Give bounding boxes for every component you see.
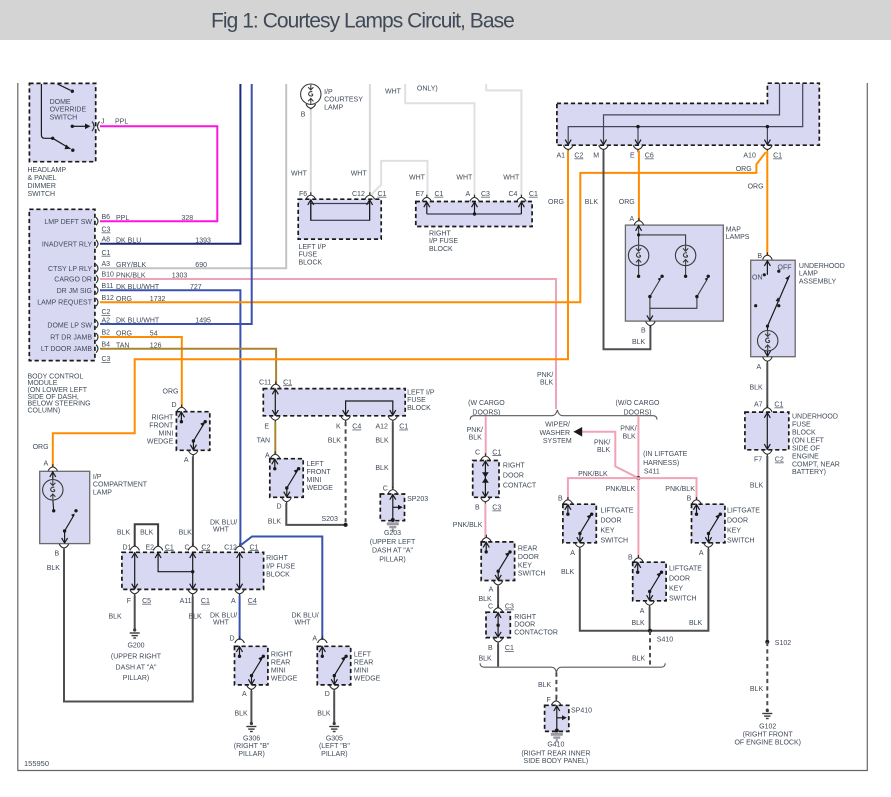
wire BLK dashed (brace to SP410 F) (555, 673, 557, 701)
contactor S8: right door contactor (486, 604, 514, 653)
svg-text:GRY/BLK: GRY/BLK (116, 262, 147, 269)
label right door contact (503, 463, 537, 490)
svg-text:INADVERT RLY: INADVERT RLY (42, 241, 93, 248)
svg-text:BLK: BLK (117, 530, 131, 537)
svg-text:ORG: ORG (619, 199, 635, 206)
svg-text:A: A (242, 691, 247, 698)
svg-text:RIGHT: RIGHT (514, 614, 537, 621)
svg-text:BLK: BLK (689, 620, 703, 627)
svg-text:SIDE OF: SIDE OF (792, 445, 820, 452)
svg-text:DOME: DOME (50, 99, 71, 106)
svg-text:SIDE BODY PANEL): SIDE BODY PANEL) (524, 758, 589, 765)
svg-text:BLOCK: BLOCK (792, 429, 816, 436)
wire DK BLU/WHT 1495 (A2, off page top) (100, 84, 252, 324)
wire DK BLU/WHT 727 (B11 down to C12 of right I/P fuse block) (100, 290, 240, 546)
svg-text:A11: A11 (180, 598, 192, 605)
svg-text:BLK: BLK (479, 596, 493, 603)
svg-text:PNK/BLK: PNK/BLK (453, 522, 483, 529)
svg-text:DK BLU/: DK BLU/ (210, 520, 237, 527)
svg-text:F7: F7 (754, 457, 762, 464)
lamp assembly E2: map lamps (625, 216, 723, 335)
svg-text:54: 54 (150, 331, 158, 338)
svg-text:RIGHT: RIGHT (429, 231, 452, 238)
svg-text:B: B (55, 551, 60, 558)
svg-text:COLUMN): COLUMN) (28, 407, 61, 414)
wire BLK dashed (S410 to collector brace) (649, 631, 651, 667)
fuse block F5: right I/P fuse block (122, 543, 264, 596)
svg-text:REAR: REAR (271, 660, 290, 667)
wire PNK/BLK (S411 right to right liftgate key switch B) (638, 478, 696, 499)
svg-text:D1: D1 (123, 544, 132, 551)
svg-text:C3: C3 (505, 604, 514, 611)
svg-text:BLK: BLK (268, 519, 282, 526)
wire BLK (left front wedge D to S203) (286, 503, 345, 525)
svg-text:PNK/BLK: PNK/BLK (606, 486, 636, 493)
svg-text:B: B (301, 111, 306, 118)
fuse block F3: underhood fuse block (745, 402, 789, 464)
svg-text:BLOCK: BLOCK (266, 572, 290, 579)
svg-text:DR JM SIG: DR JM SIG (57, 288, 92, 295)
wire ORG (A1 down, to I/P compartment lamp) (53, 151, 568, 467)
svg-text:DASH AT "A": DASH AT "A" (372, 548, 413, 555)
wire BLK (M down to map lamps B) (604, 151, 651, 350)
svg-text:A: A (699, 550, 704, 557)
svg-text:B: B (641, 328, 646, 335)
svg-text:LAMP REQUEST: LAMP REQUEST (37, 300, 92, 307)
svg-text:LMP DEFT SW: LMP DEFT SW (44, 219, 92, 226)
svg-text:A10: A10 (743, 153, 756, 160)
svg-text:PILLAR): PILLAR) (123, 675, 149, 682)
ground G410 (551, 733, 563, 742)
svg-text:B2: B2 (102, 330, 111, 337)
svg-text:E2: E2 (146, 544, 155, 551)
svg-text:ORG: ORG (736, 166, 752, 173)
svg-text:(LEFT "B": (LEFT "B" (319, 743, 350, 750)
svg-text:PNK/: PNK/ (537, 372, 553, 379)
svg-text:1732: 1732 (150, 296, 166, 303)
svg-text:C: C (185, 544, 190, 551)
svg-text:A: A (630, 216, 635, 223)
svg-text:ORG: ORG (33, 444, 49, 451)
label left I/P fuse block (299, 244, 327, 266)
svg-text:RIGHT: RIGHT (266, 555, 289, 562)
wire WHT (C12 vertical, off page top) (369, 84, 371, 195)
svg-text:MINI: MINI (307, 477, 322, 484)
jumper BLK (D1 to E2 loop) (135, 524, 158, 546)
wire TAN 126 (B4 to C11 of left I/P fuse block) (100, 349, 276, 385)
svg-text:BLK: BLK (479, 656, 493, 663)
svg-text:BLK: BLK (375, 438, 389, 445)
svg-text:BLK: BLK (623, 433, 637, 440)
label (W CARGO DOORS) (468, 400, 505, 417)
wire BLK (right front wedge A to C pin) (192, 457, 194, 546)
svg-text:C: C (475, 449, 480, 456)
svg-text:REAR: REAR (354, 660, 373, 667)
svg-text:PNK/BLK: PNK/BLK (578, 471, 608, 478)
svg-text:DOOR: DOOR (518, 554, 539, 561)
svg-text:DK BLU/: DK BLU/ (292, 612, 319, 619)
svg-text:K: K (336, 424, 341, 431)
wire GRY/BLK 690 (A3, off page top) (100, 84, 286, 268)
wire DK BLU/WHT (A to right rear wedge D) (239, 596, 241, 641)
svg-text:G102: G102 (759, 724, 776, 731)
svg-text:D: D (172, 402, 177, 409)
fuse block F4: left I/P fuse block (259, 379, 405, 423)
switch S10: right liftgate door key switch (687, 496, 725, 558)
wire (in block) feed to M (604, 83, 780, 145)
svg-text:FRONT: FRONT (149, 423, 174, 430)
svg-text:RIGHT: RIGHT (271, 652, 294, 659)
svg-text:SWITCH: SWITCH (727, 538, 755, 545)
svg-text:G305: G305 (326, 735, 343, 742)
svg-text:PNK/: PNK/ (467, 427, 483, 434)
svg-text:A1: A1 (557, 153, 566, 160)
svg-text:I/P FUSE: I/P FUSE (429, 238, 458, 245)
wire PNK/BLK (S411 left to left liftgate key switch B) (568, 478, 639, 499)
svg-text:WEDGE: WEDGE (271, 676, 298, 683)
svg-text:C1: C1 (102, 250, 111, 257)
svg-text:C1: C1 (283, 379, 292, 386)
svg-text:C1: C1 (505, 645, 514, 652)
svg-text:328: 328 (182, 215, 194, 222)
svg-text:OVERRIDE: OVERRIDE (50, 107, 87, 114)
svg-text:I/P: I/P (93, 474, 102, 481)
svg-text:S203: S203 (322, 516, 338, 523)
svg-text:PNK/BLK: PNK/BLK (665, 486, 695, 493)
wire ORG (A10 down to underhood lamp B) (766, 151, 768, 256)
svg-text:(RIGHT FRONT: (RIGHT FRONT (743, 731, 794, 738)
svg-text:ORG: ORG (548, 199, 564, 206)
svg-text:TAN: TAN (257, 438, 270, 445)
svg-text:C2: C2 (775, 457, 784, 464)
svg-text:S410: S410 (657, 637, 673, 644)
switch S11: middle liftgate door key switch (628, 555, 666, 615)
svg-text:A: A (640, 608, 645, 615)
svg-text:(RIGHT "B": (RIGHT "B" (234, 743, 270, 750)
svg-text:BLK: BLK (235, 711, 249, 718)
svg-text:E: E (630, 153, 635, 160)
svg-text:BLK: BLK (585, 199, 599, 206)
wire PNK/BLK (S411 to wiper/washer system) (580, 432, 638, 478)
label right front mini wedge (147, 415, 174, 446)
lamp E1: I/P courtesy lamp (301, 84, 364, 118)
wire BLK (F to G200) (134, 596, 136, 630)
switch S2: right front mini wedge (172, 402, 210, 464)
svg-text:REAR: REAR (518, 546, 537, 553)
svg-text:C3: C3 (492, 505, 501, 512)
svg-text:BLK: BLK (632, 656, 646, 663)
svg-text:DK BLU/WHT: DK BLU/WHT (116, 318, 160, 325)
svg-text:C1: C1 (201, 598, 210, 605)
svg-text:BLK: BLK (750, 483, 764, 490)
svg-text:OF ENGINE BLOCK): OF ENGINE BLOCK) (734, 739, 801, 746)
svg-text:CONTACT: CONTACT (503, 483, 537, 490)
svg-text:1303: 1303 (172, 273, 188, 280)
svg-text:LEFT I/P: LEFT I/P (407, 389, 435, 396)
label body control module location (28, 373, 91, 414)
svg-text:(W CARGO: (W CARGO (468, 400, 505, 407)
svg-text:F: F (547, 697, 551, 704)
svg-text:LAMP: LAMP (93, 489, 112, 496)
ground G305 (329, 722, 339, 732)
wire BLK (rear key A to contactor C) (497, 586, 499, 607)
wire WHT (off page top to pin A) (405, 84, 474, 198)
wire WHT (C4 to off page top) (486, 84, 521, 198)
svg-text:RIGHT: RIGHT (152, 415, 175, 422)
svg-text:BATTERY): BATTERY) (792, 469, 826, 476)
wire (in block) feed to A1 / E / A10 (568, 83, 803, 145)
lamp assembly E3: underhood lamp (751, 252, 796, 371)
label underhood lamp assembly (799, 263, 845, 285)
svg-text:B: B (687, 496, 692, 503)
wire BLK (right liftgate A to S410) (650, 549, 708, 631)
svg-text:PNK/: PNK/ (594, 440, 610, 447)
svg-text:C1: C1 (492, 449, 501, 456)
svg-text:Fig 1: Courtesy Lamps Circuit,: Fig 1: Courtesy Lamps Circuit, Base (211, 10, 514, 33)
svg-text:PILLAR): PILLAR) (379, 556, 405, 563)
wire ORG (E down to map lamps A) (638, 151, 640, 221)
svg-text:C1: C1 (250, 544, 259, 551)
svg-text:C1: C1 (773, 153, 782, 160)
svg-text:BLK: BLK (189, 614, 203, 621)
svg-text:C5: C5 (142, 598, 151, 605)
switch S3: left front mini wedge (265, 452, 303, 511)
svg-text:ORG: ORG (748, 183, 764, 190)
svg-text:G200: G200 (127, 643, 144, 650)
svg-text:A12: A12 (376, 424, 389, 431)
svg-text:LAMP: LAMP (799, 271, 818, 278)
node S203 (344, 523, 348, 527)
module U1: body control module (29, 209, 98, 360)
svg-text:C12: C12 (224, 544, 237, 551)
svg-text:F6: F6 (299, 191, 307, 198)
brace (ground collector) (480, 663, 665, 672)
svg-text:WHT: WHT (213, 527, 230, 534)
svg-text:SWITCH: SWITCH (50, 114, 78, 121)
ground G306 (246, 722, 256, 732)
svg-text:FUSE: FUSE (299, 252, 318, 259)
wire PNK/BLK (brace to right door contact C) (485, 416, 487, 456)
label left I/P fuse block (407, 389, 435, 411)
wire PPL 328 (J to B6) (100, 126, 217, 221)
svg-text:BLOCK: BLOCK (429, 246, 453, 253)
wire BLK (underhood lamp A to A7) (766, 363, 768, 408)
svg-text:KEY: KEY (669, 586, 683, 593)
svg-text:C4: C4 (248, 598, 257, 605)
BCM pin ids and connector labels (102, 214, 115, 363)
wire BLK (A12 to SP203 C) (392, 422, 394, 489)
svg-text:C2: C2 (201, 544, 210, 551)
svg-text:126: 126 (150, 342, 162, 349)
svg-text:KEY: KEY (601, 528, 615, 535)
svg-text:155950: 155950 (24, 759, 49, 768)
svg-text:B6: B6 (102, 214, 111, 221)
svg-text:UNDERHOOD: UNDERHOOD (799, 263, 845, 270)
svg-text:(UPPER RIGHT: (UPPER RIGHT (111, 654, 162, 661)
svg-text:LEFT: LEFT (354, 652, 372, 659)
svg-text:(IN LIFTGATE: (IN LIFTGATE (643, 451, 688, 458)
svg-text:MINI: MINI (271, 668, 286, 675)
svg-text:C2: C2 (574, 153, 583, 160)
svg-text:LAMP: LAMP (324, 104, 343, 111)
label rear door key switch (518, 546, 546, 578)
svg-text:LEFT I/P: LEFT I/P (299, 244, 327, 251)
node S102 (765, 640, 769, 644)
svg-text:DOOR: DOOR (669, 576, 690, 583)
switch S4: right rear mini wedge (230, 636, 268, 698)
svg-text:BLK: BLK (597, 447, 611, 454)
svg-text:G306: G306 (243, 735, 260, 742)
svg-text:C12: C12 (352, 191, 365, 198)
svg-text:FRONT: FRONT (307, 469, 332, 476)
svg-text:BLK: BLK (47, 565, 61, 572)
svg-text:MINI: MINI (159, 431, 174, 438)
svg-text:D: D (230, 636, 235, 643)
wire BLK (S102 to G102, fusible link dashed) (766, 642, 768, 710)
svg-text:C1: C1 (774, 402, 783, 409)
svg-text:CARGO DR: CARGO DR (54, 277, 92, 284)
svg-text:DOOR: DOOR (514, 622, 535, 629)
svg-text:ORG: ORG (116, 331, 132, 338)
svg-text:ON: ON (752, 275, 763, 282)
svg-text:DASH AT "A": DASH AT "A" (116, 665, 157, 672)
fuse block F2: right I/P fuse block (top) (416, 195, 532, 227)
svg-text:UNDERHOOD: UNDERHOOD (792, 414, 838, 421)
label I/P compartment lamp (93, 474, 148, 496)
svg-text:TAN: TAN (116, 342, 129, 349)
svg-text:CTSY LP RLY: CTSY LP RLY (48, 266, 92, 273)
svg-text:HEADLAMP: HEADLAMP (28, 167, 67, 174)
svg-text:BLK: BLK (328, 438, 342, 445)
wire BLK dashed (K to S203) (345, 422, 347, 525)
svg-text:B: B (558, 496, 563, 503)
svg-text:D: D (277, 504, 282, 511)
svg-text:BLOCK: BLOCK (407, 405, 431, 412)
svg-text:A3: A3 (102, 261, 111, 268)
wire BLK (contactor B to collector brace) (497, 644, 499, 667)
svg-text:KEY: KEY (518, 562, 532, 569)
switch S7: rear door key switch (481, 535, 514, 594)
svg-text:A: A (184, 457, 189, 464)
svg-text:RIGHT: RIGHT (503, 463, 526, 470)
svg-text:LIFTGATE: LIFTGATE (669, 566, 702, 573)
svg-text:(W/O CARGO: (W/O CARGO (616, 400, 660, 407)
svg-text:DOOR: DOOR (601, 518, 622, 525)
svg-text:M: M (593, 153, 599, 160)
svg-text:SP410: SP410 (571, 708, 592, 715)
svg-text:(ON LEFT: (ON LEFT (792, 437, 825, 444)
svg-text:B4: B4 (102, 341, 111, 348)
svg-text:DIMMER: DIMMER (28, 183, 56, 190)
svg-text:1393: 1393 (195, 238, 211, 245)
label liftgate door key switch (right) (727, 508, 760, 545)
wire BLK (left liftgate A to S410) (580, 549, 650, 631)
svg-text:WIPER/: WIPER/ (545, 421, 570, 428)
switch S: dome override / headlamp dimmer (29, 83, 99, 161)
splice SP203 (380, 486, 428, 523)
svg-text:A8: A8 (102, 237, 111, 244)
svg-text:S411: S411 (644, 469, 660, 476)
svg-text:COURTESY: COURTESY (324, 97, 363, 104)
svg-text:LT DOOR JAMB: LT DOOR JAMB (41, 346, 92, 353)
svg-text:C3: C3 (102, 356, 111, 363)
svg-text:WASHER: WASHER (540, 430, 570, 437)
svg-text:SYSTEM: SYSTEM (543, 438, 572, 445)
switch S6: right door contact (473, 449, 502, 511)
svg-text:PNK/BLK: PNK/BLK (116, 273, 146, 280)
svg-text:WHT: WHT (409, 175, 426, 182)
wire BLK (F7 to S102) (766, 456, 768, 642)
svg-text:DK BLU/WHT: DK BLU/WHT (116, 284, 160, 291)
wire PNK/BLK (brace to S411) (637, 416, 639, 478)
node S411 (636, 476, 640, 480)
svg-text:PPL: PPL (115, 119, 128, 126)
svg-text:E7: E7 (416, 191, 425, 198)
svg-text:WHT: WHT (456, 175, 473, 182)
svg-text:WHT: WHT (351, 171, 368, 178)
lamp E4: I/P compartment lamp (40, 461, 90, 558)
svg-text:BLK: BLK (109, 614, 123, 621)
svg-text:C3: C3 (481, 191, 490, 198)
svg-text:RT DR JAMB: RT DR JAMB (50, 335, 92, 342)
svg-text:ASSEMBLY: ASSEMBLY (799, 278, 837, 285)
wire PNK/BLK (B to rear door key switch) (484, 504, 486, 538)
svg-text:F: F (127, 598, 131, 605)
svg-text:A: A (44, 461, 49, 468)
switch S5: left rear mini wedge (312, 636, 350, 698)
svg-text:D: D (325, 691, 330, 698)
svg-text:B10: B10 (102, 272, 115, 279)
wire DK BLU 1393 (A8, off page top) (100, 84, 240, 244)
svg-text:DOME LP SW: DOME LP SW (47, 323, 92, 330)
svg-text:WHT: WHT (295, 620, 312, 627)
svg-text:C1: C1 (435, 191, 444, 198)
svg-text:WHT: WHT (503, 175, 520, 182)
svg-text:ORG: ORG (116, 296, 132, 303)
svg-text:WEDGE: WEDGE (147, 439, 174, 446)
svg-text:I/P FUSE: I/P FUSE (266, 564, 295, 571)
svg-text:G410: G410 (547, 742, 564, 749)
svg-text:WHT: WHT (213, 620, 230, 627)
svg-text:PPL: PPL (116, 215, 129, 222)
ground G203 (387, 522, 399, 531)
label (W/O CARGO DOORS) (616, 400, 660, 417)
svg-text:PILLAR): PILLAR) (321, 751, 347, 758)
svg-text:690: 690 (195, 262, 207, 269)
svg-text:E: E (264, 424, 269, 431)
svg-text:C1: C1 (529, 191, 538, 198)
label right rear mini wedge (271, 652, 298, 683)
splice SP410 (545, 697, 593, 733)
svg-text:BLK: BLK (750, 385, 764, 392)
svg-text:MODULE: MODULE (28, 380, 58, 387)
wire BLK (I/P comp lamp B joins A11 run) (64, 549, 193, 701)
label (IN LIFTGATE HARNESS) S411 (643, 451, 688, 476)
svg-text:A: A (466, 191, 471, 198)
svg-text:FUSE: FUSE (407, 397, 426, 404)
svg-text:SWITCH: SWITCH (518, 571, 546, 578)
svg-text:A: A (489, 586, 494, 593)
svg-text:BLK: BLK (632, 339, 646, 346)
ground G102 (762, 709, 772, 719)
svg-text:A: A (570, 550, 575, 557)
wire ORG 1732 (B12 to A10) (100, 152, 766, 302)
svg-text:COMPT, NEAR: COMPT, NEAR (792, 461, 840, 468)
label headlamp & panel dimmer switch (28, 167, 67, 198)
svg-text:(RIGHT REAR INNER: (RIGHT REAR INNER (521, 750, 590, 757)
svg-text:LAMPS: LAMPS (726, 234, 750, 241)
label left rear mini wedge (354, 652, 381, 683)
